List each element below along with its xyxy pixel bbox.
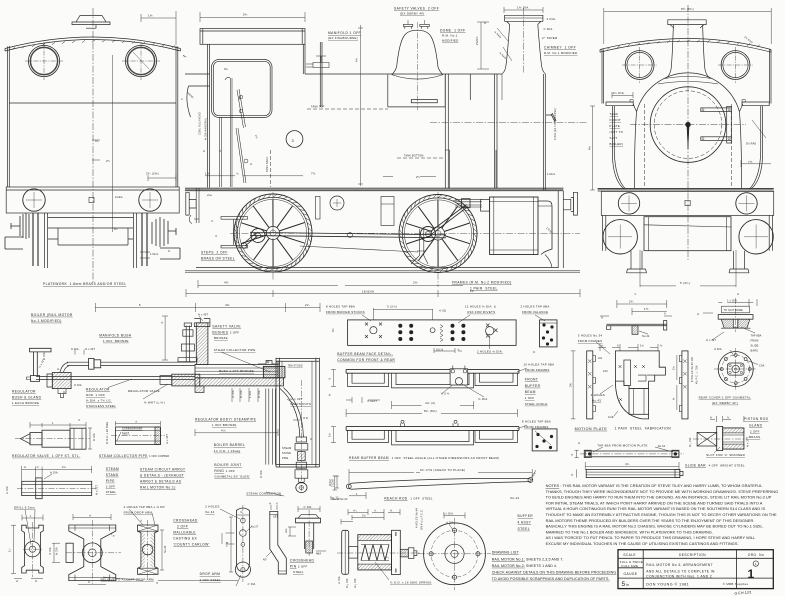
- svg-text:FROM FRAMES: FROM FRAMES: [525, 368, 550, 372]
- svg-text:7⁾ⅷ: 7⁾ⅷ: [225, 541, 229, 547]
- svg-text:SCREWDRIVER: SCREWDRIVER: [122, 428, 142, 431]
- svg-text:CHECK AGAINST DETAILS ON THIS: CHECK AGAINST DETAILS ON THIS DRAWING BE…: [492, 570, 617, 574]
- svg-text:⅜ DIA. x 7¾ LG.: ⅜ DIA. x 7¾ LG.: [86, 398, 112, 402]
- svg-text:⅝ ⁽₁: ⅝ ⁽₁: [353, 508, 358, 512]
- svg-text:8 HOLES No.30 ON: 8 HOLES No.30 ON: [691, 357, 694, 382]
- svg-text:5½ RAD: 5½ RAD: [746, 142, 756, 146]
- svg-text:2 OFF: 2 OFF: [106, 484, 116, 488]
- svg-text:4¼ P.C. ⁽₁⁾ DIA: 4¼ P.C. ⁽₁⁾ DIA: [695, 365, 699, 384]
- svg-text:STAINLESS STEEL: STAINLESS STEEL: [86, 404, 116, 408]
- svg-text:STEAM COLLECTOR PIPE 1 OFF COP: STEAM COLLECTOR PIPE 1 OFF COPPER: [99, 454, 169, 458]
- svg-text:SLIDE: SLIDE: [751, 344, 759, 347]
- svg-text:1 OFF BRONZE: 1 OFF BRONZE: [212, 423, 237, 427]
- svg-text:GUNMETAL EX 'GLEN': GUNMETAL EX 'GLEN': [214, 475, 250, 479]
- svg-text:3: 3: [292, 139, 295, 143]
- svg-text:TANK BACK: TANK BACK: [266, 156, 269, 172]
- svg-text:2 OFF STEEL: 2 OFF STEEL: [200, 578, 222, 582]
- svg-text:7½: 7½: [311, 172, 316, 176]
- svg-text:REACH ROD 1 OFF STEEL: REACH ROD 1 OFF STEEL: [384, 496, 433, 500]
- svg-text:⅝ DIA: ⅝ DIA: [260, 470, 263, 478]
- svg-text:1.6mm: 1.6mm: [547, 173, 555, 176]
- svg-text:4⅜: 4⅜: [225, 303, 230, 307]
- svg-text:STEPS 2 OFF: STEPS 2 OFF: [201, 251, 228, 255]
- svg-text:1⁽₁⁾: 1⁽₁⁾: [8, 548, 12, 552]
- svg-text:8¼ (8⅛): 8¼ (8⅛): [424, 409, 437, 413]
- svg-text:BUSH 1 OFF BRONZE: BUSH 1 OFF BRONZE: [219, 369, 254, 373]
- svg-text:⅜ O.D. x 18 SWG: ⅜ O.D. x 18 SWG: [106, 422, 109, 444]
- svg-text:⅝ SQ: ⅝ SQ: [439, 309, 446, 312]
- svg-text:⅜ O.D.: ⅜ O.D.: [300, 417, 309, 420]
- svg-text:No.44: No.44: [205, 510, 214, 514]
- svg-text:1 OFF: 1 OFF: [525, 396, 535, 400]
- svg-text:⅛ DIA: ⅛ DIA: [232, 390, 235, 398]
- svg-text:R.M. No.1 MODIFIED: R.M. No.1 MODIFIED: [544, 51, 577, 55]
- svg-text:2 (2⅛): 2 (2⅛): [332, 479, 335, 487]
- svg-text:SLOT: SLOT: [122, 432, 129, 435]
- svg-text:GAUGE: GAUGE: [624, 572, 638, 576]
- svg-text:⅜ DIA HANDRAIL: ⅜ DIA HANDRAIL: [205, 117, 208, 140]
- svg-text:BASICALLY THIS ENGINE IS A RAI: BASICALLY THIS ENGINE IS A RAIL MOTOR No…: [546, 524, 763, 529]
- svg-text:SAFETY VALVE: SAFETY VALVE: [212, 325, 241, 329]
- svg-text:⅝ DIA: ⅝ DIA: [258, 390, 261, 398]
- svg-text:1: 1: [748, 567, 755, 581]
- svg-text:STEEL: STEEL: [518, 527, 530, 531]
- svg-text:5 (4¾): 5 (4¾): [680, 281, 690, 285]
- svg-text:⅜ x 32T: ⅜ x 32T: [85, 348, 95, 351]
- svg-text:4 HOLES: 4 HOLES: [591, 393, 605, 397]
- svg-text:CSK: CSK: [759, 364, 765, 367]
- svg-text:CROSSHEAD: CROSSHEAD: [290, 558, 315, 562]
- svg-text:⅜ DIA: ⅜ DIA: [74, 384, 82, 387]
- svg-text:(CUT TO: (CUT TO: [610, 130, 624, 134]
- svg-text:⅛ x 40T: ⅛ x 40T: [166, 434, 169, 444]
- svg-text:NOTES : THIS RAIL MOTOR VARIAN: NOTES : THIS RAIL MOTOR VARIANT IS THE C…: [546, 483, 764, 488]
- svg-text:5 in: 5 in: [622, 581, 629, 588]
- svg-text:8 HOLES TAP 8BA: 8 HOLES TAP 8BA: [326, 304, 355, 308]
- svg-text:MANIFOLD BUSH: MANIFOLD BUSH: [99, 333, 132, 337]
- svg-text:ON 4 ²₅⁄₃₂ P.C.D.: ON 4 ²₅⁄₃₂ P.C.D.: [421, 509, 424, 530]
- svg-text:BOILER JOINT: BOILER JOINT: [214, 463, 241, 467]
- svg-text:⅛ x 32T: ⅛ x 32T: [706, 339, 716, 342]
- svg-text:BRONZE: BRONZE: [214, 336, 228, 340]
- svg-text:4¾: 4¾: [625, 462, 630, 466]
- svg-text:2¼ (2⅜): 2¼ (2⅜): [146, 172, 159, 176]
- svg-text:© MRB Supplies: © MRB Supplies: [723, 582, 749, 586]
- svg-text:ARRGT & DETAILS AS: ARRGT & DETAILS AS: [140, 479, 182, 483]
- svg-text:2¼: 2¼: [305, 303, 310, 307]
- svg-text:DROP ARM: DROP ARM: [200, 572, 221, 576]
- svg-text:TO AVOID POSSIBLE SCRAPPINGS A: TO AVOID POSSIBLE SCRAPPINGS AND DUPLICA…: [492, 577, 610, 581]
- svg-text:AND ALL DETAILS TO COMPLETE IN: AND ALL DETAILS TO COMPLETE IN: [646, 569, 715, 573]
- svg-text:7½: 7½: [748, 160, 753, 164]
- svg-text:PLATE: PLATE: [610, 124, 620, 128]
- svg-text:FRONT: FRONT: [610, 118, 621, 122]
- svg-text:2 OFF: 2 OFF: [750, 429, 760, 433]
- svg-text:2° TAPER: 2° TAPER: [542, 36, 557, 40]
- svg-text:COMMON FOR FRONT & REAR: COMMON FOR FRONT & REAR: [337, 358, 395, 362]
- svg-text:TANK: TANK: [610, 112, 619, 116]
- svg-text:2¼: 2¼: [629, 300, 634, 304]
- svg-text:⅜⁽₁ DIA: ⅜⁽₁ DIA: [688, 437, 692, 447]
- svg-text:½ O.D. x 16 SWG SPRING: ½ O.D. x 16 SWG SPRING: [390, 580, 432, 584]
- svg-text:5¾: 5¾: [243, 13, 248, 17]
- svg-text:FROM VALANCE: FROM VALANCE: [522, 310, 548, 314]
- svg-text:2(2¼): 2(2¼): [329, 479, 332, 486]
- svg-text:⅜ DIA: ⅜ DIA: [240, 390, 243, 398]
- svg-text:BUFFER BEAM FACE DETAIL,: BUFFER BEAM FACE DETAIL,: [337, 352, 393, 356]
- svg-text:8 HOLES TAP 6BA: 8 HOLES TAP 6BA: [522, 419, 551, 423]
- svg-text:BUFFER: BUFFER: [518, 514, 534, 518]
- svg-text:DRAWING LIST: DRAWING LIST: [492, 551, 520, 555]
- svg-text:AS I WAS 'FORCED' TO PUT PENCI: AS I WAS 'FORCED' TO PUT PENCIL TO PAPER…: [546, 535, 757, 540]
- svg-text:⅜ DIA: ⅜ DIA: [93, 433, 96, 441]
- svg-text:BEAM: BEAM: [525, 390, 536, 394]
- svg-text:1 PAIR STEEL: 1 PAIR STEEL: [470, 287, 498, 291]
- svg-text:No.1 MODIFIED): No.1 MODIFIED): [31, 319, 62, 323]
- svg-text:VIRTUAL 6 HOUR CONTINUOUS RUN!: VIRTUAL 6 HOUR CONTINUOUS RUN! THIS RAIL…: [546, 506, 766, 511]
- svg-text:REAR BUFFER BEAM 1 OFF STEEL: REAR BUFFER BEAM 1 OFF STEEL ANGLE (ALL …: [349, 456, 499, 460]
- svg-text:⅞ DIA: ⅞ DIA: [49, 547, 52, 555]
- svg-text:RAIL MOTOR No.2: SHEETS 1 AND: RAIL MOTOR No.2: SHEETS 1 AND 4.: [492, 564, 558, 568]
- svg-text:¼ DIA: ¼ DIA: [338, 576, 341, 584]
- svg-text:'COUNTY CARLOW': 'COUNTY CARLOW': [173, 542, 210, 546]
- svg-text:RELIEVE TO ACCEPT DROP ARM: RELIEVE TO ACCEPT DROP ARM: [101, 577, 154, 581]
- svg-text:No.34: No.34: [658, 445, 666, 448]
- svg-text:(EX DERBY 4F): (EX DERBY 4F): [400, 12, 425, 16]
- svg-text:SUIT: SUIT: [610, 136, 618, 140]
- svg-text:1 OFF BRONZE: 1 OFF BRONZE: [103, 339, 129, 343]
- svg-text:⅛⁽₂ DIA: ⅛⁽₂ DIA: [353, 578, 357, 588]
- svg-text:THANKS, THOUGH THEY WERE INCON: THANKS, THOUGH THEY WERE INCONSIDERATE N…: [546, 489, 779, 494]
- svg-text:5: 5: [139, 303, 141, 307]
- svg-text:4 DIA (EX FISHBOURNE): 4 DIA (EX FISHBOURNE): [554, 108, 557, 140]
- svg-text:4¾ O.D. x 13swg: 4¾ O.D. x 13swg: [214, 449, 241, 453]
- svg-text:⅜ DIA.: ⅜ DIA.: [50, 471, 59, 474]
- svg-text:No.27: No.27: [251, 525, 259, 528]
- svg-text:CONJUNCTION WITH Nos. 1 AND: CONJUNCTION WITH Nos. 1 AND 2: [646, 574, 712, 578]
- svg-text:STEEL ANGLE: STEEL ANGLE: [525, 402, 548, 406]
- svg-text:(EX 'DERBY 4F'): (EX 'DERBY 4F'): [712, 401, 738, 405]
- svg-text:TANK TOP: TANK TOP: [311, 106, 325, 109]
- svg-text:No.11: No.11: [330, 496, 339, 500]
- svg-text:SET: SET: [273, 516, 279, 519]
- svg-text:BARS: BARS: [751, 349, 759, 352]
- svg-text:1 ⁽₁⁾ DIA: 1 ⁽₁⁾ DIA: [727, 298, 737, 302]
- svg-text:PIN 2 OFF: PIN 2 OFF: [290, 564, 308, 568]
- svg-text:⅛G: ⅛G: [598, 357, 602, 360]
- svg-text:⅞⁾ DIA: ⅞⁾ DIA: [303, 505, 312, 509]
- svg-text:⅜ x 40T: ⅜ x 40T: [198, 313, 208, 316]
- svg-text:FRONT: FRONT: [525, 377, 538, 381]
- svg-text:R.M. No.1: R.M. No.1: [442, 34, 458, 38]
- svg-text:FRAMES (R.M. No 2 MODIFIED): FRAMES (R.M. No 2 MODIFIED): [452, 281, 512, 285]
- svg-text:PISTON ROD: PISTON ROD: [744, 417, 769, 421]
- svg-text:⅝⁽₂ DIA: ⅝⁽₂ DIA: [345, 578, 349, 588]
- svg-text:BRASS OR STEEL: BRASS OR STEEL: [201, 257, 235, 261]
- svg-text:10 HOLES TAP 6BA: 10 HOLES TAP 6BA: [523, 362, 554, 366]
- svg-text:FOR INITIAL STEAM TRIALS, AT W: FOR INITIAL STEAM TRIALS, AT WHICH POINT…: [546, 500, 763, 505]
- svg-text:FROM DROP ARM: FROM DROP ARM: [124, 511, 153, 515]
- svg-text:FROM BUFFER STOCKS: FROM BUFFER STOCKS: [326, 310, 365, 314]
- svg-text:FULL SIZE: FULL SIZE: [622, 564, 639, 568]
- svg-text:16(⅞): 16(⅞): [436, 348, 443, 351]
- svg-text:FROM: FROM: [751, 339, 759, 342]
- svg-text:ROD 1 OFF: ROD 1 OFF: [86, 393, 105, 397]
- svg-text:⅜ DIA: ⅜ DIA: [56, 547, 59, 555]
- svg-text:8½ (8¾): 8½ (8¾): [681, 7, 694, 11]
- svg-text:STEAM CIRCUIT ARRGT: STEAM CIRCUIT ARRGT: [140, 467, 185, 471]
- svg-text:BUSH & GLAND: BUSH & GLAND: [12, 396, 42, 400]
- svg-text:REAR COVER 2 OFF GUNMETAL: REAR COVER 2 OFF GUNMETAL: [699, 395, 751, 399]
- svg-text:FROM FRAMES: FROM FRAMES: [524, 425, 549, 429]
- svg-text:PIPE: PIPE: [282, 457, 288, 460]
- svg-text:1⅛ DIA.: 1⅛ DIA.: [517, 6, 530, 10]
- svg-text:2 HOLES TAP 8BA x ⅛ DP: 2 HOLES TAP 8BA x ⅛ DP: [124, 505, 165, 509]
- svg-text:REGULATOR: REGULATOR: [86, 388, 110, 392]
- svg-text:BRASS: BRASS: [749, 435, 760, 439]
- svg-text:No.34: No.34: [642, 335, 650, 338]
- svg-text:TO BUILD ENGINES AND HARRY TO: TO BUILD ENGINES AND HARRY TO RUN THEM I…: [546, 495, 772, 500]
- svg-text:SAFETY VALVES 2 OFF: SAFETY VALVES 2 OFF: [394, 7, 439, 11]
- svg-text:¼ DIA: ¼ DIA: [6, 486, 9, 494]
- svg-text:TANK BOTTOM: TANK BOTTOM: [404, 155, 423, 158]
- svg-text:3 HOLES No.34: 3 HOLES No.34: [578, 334, 603, 338]
- svg-text:9¼ CTS (CHECK TO PLACE): 9¼ CTS (CHECK TO PLACE): [420, 468, 465, 472]
- svg-text:FROM FRAMES: FROM FRAMES: [578, 339, 603, 343]
- svg-text:TAP 8BA: TAP 8BA: [751, 334, 762, 337]
- svg-text:2 DIA.: 2 DIA.: [547, 17, 557, 21]
- svg-text:45°: 45°: [263, 559, 267, 562]
- svg-text:CROSSHEAD: CROSSHEAD: [173, 518, 198, 522]
- svg-text:⅜ x 32T: ⅜ x 32T: [96, 485, 99, 495]
- svg-text:COAL BULKHEAD: COAL BULKHEAD: [199, 112, 202, 135]
- svg-text:REGULATOR BODY/ STEAMPIPE: REGULATOR BODY/ STEAMPIPE: [195, 417, 257, 421]
- svg-text:REGULATOR VALVE: REGULATOR VALVE: [128, 389, 160, 393]
- svg-text:RAIL MOTOR No 3; ARRANGEMENT: RAIL MOTOR No 3; ARRANGEMENT: [646, 563, 713, 567]
- svg-text:PIPE: PIPE: [106, 479, 116, 483]
- svg-text:BUFFER: BUFFER: [525, 384, 541, 388]
- svg-text:REGULATOR: REGULATOR: [12, 390, 36, 394]
- svg-text:MANIFOLD 1 OFF: MANIFOLD 1 OFF: [328, 31, 361, 35]
- svg-text:1 ⁽₁⁾ DIA.: 1 ⁽₁⁾ DIA.: [443, 511, 454, 515]
- svg-text:STEAM: STEAM: [282, 447, 291, 450]
- svg-text:4BA: 4BA: [316, 553, 321, 556]
- svg-text:EXCUSE MY INDIVIDUAL TOUCHES I: EXCUSE MY INDIVIDUAL TOUCHES IN THE CAUS…: [546, 541, 739, 546]
- svg-text:⅜ DIA.: ⅜ DIA.: [71, 348, 80, 351]
- svg-text:SLOT FOR 'C' SPANNER: SLOT FOR 'C' SPANNER: [706, 453, 745, 457]
- svg-text:STEEL: STEEL: [106, 490, 117, 494]
- svg-text:1⅛dia: 1⅛dia: [115, 196, 123, 199]
- svg-text:CSK FOR RIVETS: CSK FOR RIVETS: [467, 310, 495, 314]
- svg-text:¼ DIA: ¼ DIA: [43, 352, 46, 360]
- svg-text:No.43: No.43: [592, 399, 601, 403]
- svg-text:BOILER BARREL: BOILER BARREL: [214, 443, 245, 447]
- svg-text:CHIMNEY 1 OFF: CHIMNEY 1 OFF: [544, 46, 576, 50]
- svg-text:⅝ SLOT: ⅝ SLOT: [367, 400, 378, 403]
- svg-text:STEAM CONNECTION: STEAM CONNECTION: [246, 492, 281, 496]
- svg-text:DRG. No: DRG. No: [748, 553, 764, 557]
- svg-text:STAND: STAND: [106, 473, 119, 477]
- svg-text:7BA STUDS: 7BA STUDS: [288, 365, 303, 368]
- svg-text:4⅛ (4): 4⅛ (4): [425, 401, 435, 405]
- svg-text:⅞⁾ DIA: ⅞⁾ DIA: [247, 582, 256, 586]
- svg-text:⅛ DIA: ⅛ DIA: [714, 348, 722, 351]
- svg-text:1⅛: 1⅛: [148, 14, 153, 18]
- svg-text:⅝ DIA.: ⅝ DIA.: [478, 397, 489, 401]
- svg-text:100: 100: [603, 370, 608, 373]
- svg-text:4 ASSY: 4 ASSY: [518, 520, 532, 524]
- svg-text:DON YOUNG © 1981: DON YOUNG © 1981: [646, 582, 689, 586]
- svg-text:3 (2⅞): 3 (2⅞): [387, 304, 397, 308]
- svg-text:RAIL MOTOR No.1): RAIL MOTOR No.1): [140, 485, 176, 489]
- svg-text:4½: 4½: [224, 281, 229, 285]
- svg-text:BUSHES 2 OFF: BUSHES 2 OFF: [212, 331, 239, 335]
- svg-text:DESCRIPTION: DESCRIPTION: [679, 553, 706, 557]
- svg-text:MARRIED TO THE No.1 BOILER AND: MARRIED TO THE No.1 BOILER AND SMOKEBOX,…: [546, 529, 713, 534]
- svg-text:4⅞: 4⅞: [221, 428, 226, 432]
- svg-text:18⅞DIA: 18⅞DIA: [362, 290, 374, 294]
- svg-text:⅝ DIA: ⅝ DIA: [446, 521, 454, 524]
- svg-text:STEAM: STEAM: [106, 467, 119, 471]
- svg-text:SCALE: SCALE: [623, 553, 636, 557]
- svg-text:(EX FISHBOURNE): (EX FISHBOURNE): [328, 36, 358, 40]
- svg-text:STEAM COLLECTOR PIPE: STEAM COLLECTOR PIPE: [214, 348, 256, 352]
- svg-text:2⅝/2⅞: 2⅝/2⅞: [476, 36, 479, 45]
- svg-text:RING 1 OFF: RING 1 OFF: [214, 469, 235, 473]
- svg-text:THOUGHT TO MAKE AN EXTREMELY A: THOUGHT TO MAKE AN EXTREMELY ATTRACTIVE …: [546, 512, 777, 517]
- svg-text:MOTION PLATE: MOTION PLATE: [575, 427, 608, 431]
- svg-text:2 HOLES TAP 8BA: 2 HOLES TAP 8BA: [521, 304, 550, 308]
- svg-text:GLAND: GLAND: [749, 424, 763, 428]
- svg-text:1¼ DIA.: 1¼ DIA.: [613, 91, 626, 95]
- svg-text:⅜ G ⅛: ⅜ G ⅛: [441, 392, 450, 395]
- svg-text:⅛⅛: ⅛⅛: [285, 528, 288, 533]
- svg-text:2⅛: 2⅛: [413, 281, 418, 285]
- svg-text:⅛ x 32T: ⅛ x 32T: [290, 397, 303, 401]
- svg-text:No.22: No.22: [510, 496, 519, 500]
- svg-text:⅒: ⅒: [183, 55, 187, 58]
- svg-text:vice: vice: [207, 194, 213, 197]
- svg-text:2 HOLES: 2 HOLES: [205, 505, 219, 509]
- svg-text:MALLEABLE: MALLEABLE: [173, 530, 196, 534]
- svg-text:CASTING EX: CASTING EX: [173, 536, 197, 540]
- svg-text:1⅛R: 1⅛R: [608, 416, 614, 419]
- svg-text:1⅝: 1⅝: [205, 172, 210, 176]
- svg-text:TAP 6BA FROM MOTION PLATE: TAP 6BA FROM MOTION PLATE: [597, 444, 647, 448]
- svg-text:DOME 1 OFF: DOME 1 OFF: [440, 29, 465, 33]
- svg-text:1 EACH BRONZE: 1 EACH BRONZE: [12, 401, 39, 405]
- svg-text:SLIDE BAR 4 OFF BRIGHT STEEL: SLIDE BAR 4 OFF BRIGHT STEEL: [685, 464, 745, 468]
- svg-text:⅞: ⅞: [236, 172, 239, 176]
- svg-text:24: 24: [470, 289, 474, 293]
- svg-text:TO SUIT BORE: TO SUIT BORE: [724, 309, 744, 312]
- svg-text:No.32: No.32: [164, 545, 167, 553]
- svg-text:2 OFF: 2 OFF: [177, 524, 188, 528]
- svg-text:1 PAIR STEEL FABRICATION: 1 PAIR STEEL FABRICATION: [612, 426, 671, 430]
- svg-text:BOILER (RAIL MOTOR: BOILER (RAIL MOTOR: [31, 313, 73, 317]
- svg-text:2 HOLES ⅝ DIA.: 2 HOLES ⅝ DIA.: [477, 349, 503, 353]
- svg-text:MODIFIED: MODIFIED: [442, 39, 459, 43]
- svg-text:UNION NUTS: UNION NUTS: [290, 402, 311, 406]
- svg-text:STAND: STAND: [282, 452, 291, 455]
- svg-text:& DETAILS - (EXHAUST: & DETAILS - (EXHAUST: [140, 473, 184, 477]
- svg-text:PLATEWORK 1.6mm BRASS AND/OR: PLATEWORK 1.6mm BRASS AND/OR STEEL: [43, 282, 126, 286]
- svg-text:RAIL MOTORS THEME PRODUCED BY: RAIL MOTORS THEME PRODUCED BY BUILDERS O…: [546, 518, 755, 523]
- svg-text:1½: 1½: [644, 307, 649, 311]
- svg-text:DRILL 6.3mm: DRILL 6.3mm: [14, 505, 35, 509]
- svg-text:1 DIA: 1 DIA: [249, 391, 252, 398]
- svg-text:RAIL MOTOR No.1: SHEETS 2,3,5: RAIL MOTOR No.1: SHEETS 2,3,5 AND 7.: [492, 557, 564, 561]
- svg-text:BOILER): BOILER): [610, 142, 624, 146]
- svg-text:REGULATOR VALVE 1 OFF ST. STL: REGULATOR VALVE 1 OFF ST. STL.: [12, 454, 80, 458]
- svg-text:⅛ WHT (L.H.): ⅛ WHT (L.H.): [144, 400, 165, 404]
- svg-text:STEEL: STEEL: [293, 570, 304, 574]
- svg-text:1.6mm: 1.6mm: [150, 253, 158, 256]
- svg-text:⅝⁾₁: ⅝⁾₁: [385, 555, 389, 559]
- svg-text:4 HOLES No.44: 4 HOLES No.44: [416, 508, 419, 528]
- svg-text:12 HOLES ⅛ DIA. &: 12 HOLES ⅛ DIA. &: [465, 304, 496, 308]
- svg-text:⅞ DIA.: ⅞ DIA.: [543, 27, 554, 31]
